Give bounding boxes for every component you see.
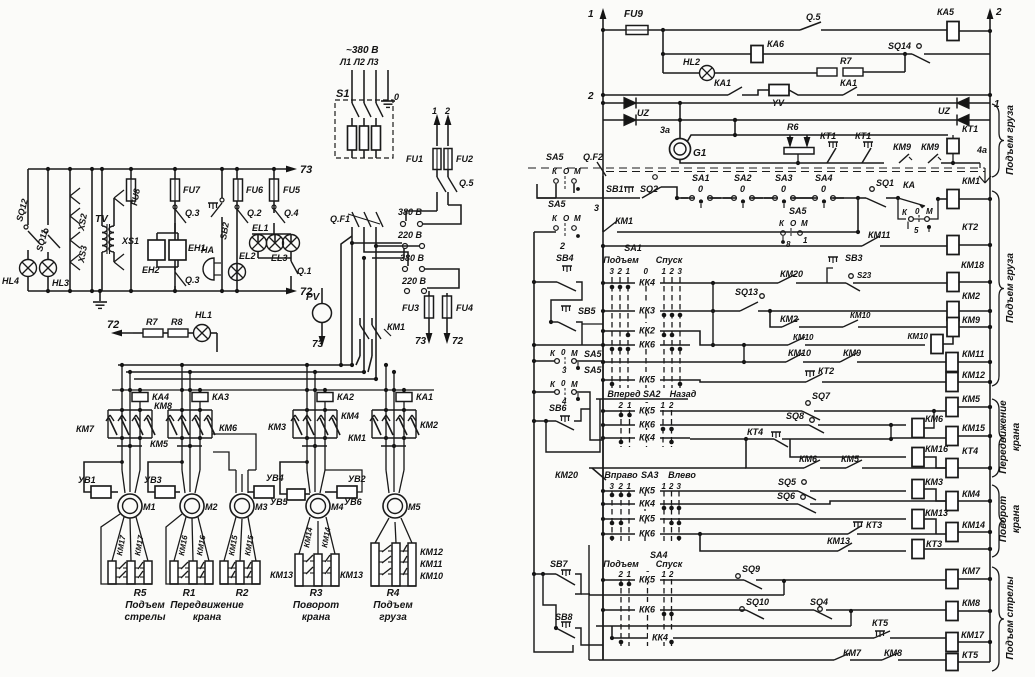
svg-text:SB8: SB8 <box>555 612 573 622</box>
svg-text:М: М <box>801 219 808 228</box>
svg-text:G1: G1 <box>693 148 707 159</box>
svg-text:КМ15: КМ15 <box>962 423 986 433</box>
svg-text:КК5: КК5 <box>639 375 656 385</box>
svg-text:О: О <box>790 219 797 228</box>
svg-text:SB4: SB4 <box>556 253 574 263</box>
svg-text:КК2: КК2 <box>639 326 655 336</box>
svg-text:Спуск: Спуск <box>656 255 683 265</box>
svg-text:Вправо: Вправо <box>604 470 638 480</box>
svg-text:3а: 3а <box>660 125 670 135</box>
svg-text:КМ9: КМ9 <box>962 315 980 325</box>
svg-text:КК5: КК5 <box>639 514 656 524</box>
svg-text:SA2: SA2 <box>734 173 752 183</box>
svg-text:1: 1 <box>588 9 594 20</box>
svg-text:КК5: КК5 <box>639 406 656 416</box>
svg-text:М: М <box>574 167 581 176</box>
svg-text:1: 1 <box>662 482 667 491</box>
svg-text:УВ3: УВ3 <box>144 475 162 485</box>
svg-text:Подъем: Подъем <box>125 600 165 611</box>
svg-text:КК4: КК4 <box>652 633 668 643</box>
svg-text:SQ13: SQ13 <box>735 287 758 297</box>
svg-text:M1: M1 <box>143 502 156 512</box>
svg-text:XS1: XS1 <box>121 236 139 246</box>
svg-text:Вперед: Вперед <box>607 389 641 399</box>
svg-text:Подъем: Подъем <box>373 600 413 611</box>
svg-text:КМ13: КМ13 <box>340 570 363 580</box>
svg-text:SA1: SA1 <box>624 243 642 253</box>
svg-text:HL3: HL3 <box>52 278 69 288</box>
svg-text:SA5: SA5 <box>546 152 565 162</box>
svg-text:4а: 4а <box>976 145 987 155</box>
svg-text:0: 0 <box>644 267 649 276</box>
svg-text:EL2: EL2 <box>239 251 256 261</box>
svg-text:НА: НА <box>201 245 214 255</box>
svg-text:КМ11: КМ11 <box>420 559 442 569</box>
svg-text:M2: M2 <box>205 502 218 512</box>
svg-text:КА: КА <box>903 180 915 190</box>
svg-text:R4: R4 <box>387 588 400 599</box>
svg-text:КМ7: КМ7 <box>76 424 95 434</box>
svg-text:КМ4: КМ4 <box>341 411 359 421</box>
svg-text:SQ10: SQ10 <box>746 597 769 607</box>
svg-text:SA3: SA3 <box>641 470 659 480</box>
svg-text:Подъем: Подъем <box>603 255 639 265</box>
svg-text:M5: M5 <box>408 502 421 512</box>
svg-text:2: 2 <box>668 570 674 579</box>
svg-text:УВ6: УВ6 <box>344 497 363 507</box>
svg-text:КМ17: КМ17 <box>961 630 985 640</box>
svg-text:КА1: КА1 <box>840 78 857 88</box>
svg-text:Подъем груза: Подъем груза <box>1005 105 1016 175</box>
svg-text:Передвижение: Передвижение <box>170 600 244 611</box>
svg-text:2: 2 <box>559 241 565 251</box>
svg-text:SA3: SA3 <box>775 173 793 183</box>
svg-text:SA5: SA5 <box>584 365 603 375</box>
svg-text:1: 1 <box>662 267 667 276</box>
svg-text:SB1: SB1 <box>606 184 624 194</box>
svg-text:КМ11: КМ11 <box>962 349 984 359</box>
svg-text:крана: крана <box>1011 422 1022 451</box>
svg-text:КМ3: КМ3 <box>925 477 943 487</box>
svg-text:Q.F2: Q.F2 <box>583 152 603 162</box>
svg-text:КМ16: КМ16 <box>925 444 949 454</box>
svg-text:FU4: FU4 <box>456 303 473 313</box>
svg-text:R7: R7 <box>146 317 158 327</box>
svg-text:2: 2 <box>587 91 594 102</box>
svg-text:0: 0 <box>698 184 703 194</box>
svg-text:Подъем стрелы: Подъем стрелы <box>1005 576 1016 660</box>
svg-text:КМ11: КМ11 <box>868 230 890 240</box>
svg-text:крана: крана <box>302 612 331 623</box>
svg-text:1: 1 <box>627 482 632 491</box>
svg-text:КК6: КК6 <box>639 420 656 430</box>
svg-text:КК6: КК6 <box>639 340 656 350</box>
svg-text:R3: R3 <box>310 588 323 599</box>
svg-text:SB6: SB6 <box>549 403 568 413</box>
svg-text:SA5: SA5 <box>548 199 567 209</box>
svg-text:1: 1 <box>662 570 667 579</box>
svg-text:КА5: КА5 <box>937 7 955 17</box>
svg-text:FU6: FU6 <box>246 185 264 195</box>
svg-text:PV: PV <box>306 292 321 303</box>
svg-text:R8: R8 <box>171 317 183 327</box>
svg-text:2: 2 <box>669 267 675 276</box>
svg-text:FU5: FU5 <box>283 185 301 195</box>
svg-text:КА1: КА1 <box>416 392 433 402</box>
svg-text:УВ4: УВ4 <box>266 473 284 483</box>
svg-text:1: 1 <box>627 401 632 410</box>
svg-text:2: 2 <box>444 106 450 116</box>
svg-text:EL1: EL1 <box>252 223 269 233</box>
svg-text:R1: R1 <box>183 588 196 599</box>
svg-text:КМ8: КМ8 <box>884 648 902 658</box>
svg-text:КМ1: КМ1 <box>387 322 405 332</box>
svg-text:1: 1 <box>626 267 631 276</box>
svg-text:SQ6: SQ6 <box>777 491 796 501</box>
svg-text:КМ12: КМ12 <box>962 370 985 380</box>
svg-text:КТ5: КТ5 <box>962 650 979 660</box>
svg-text:Q.F1: Q.F1 <box>330 214 350 224</box>
svg-text:КК6: КК6 <box>639 605 656 615</box>
svg-text:КК4: КК4 <box>639 433 655 443</box>
svg-text:73: 73 <box>300 164 312 176</box>
svg-text:КМ20: КМ20 <box>780 269 803 279</box>
svg-text:FU3: FU3 <box>402 303 419 313</box>
svg-text:SQ9: SQ9 <box>742 564 760 574</box>
svg-text:HL4: HL4 <box>2 276 19 286</box>
svg-text:КМ13: КМ13 <box>925 508 948 518</box>
svg-text:КМ13: КМ13 <box>827 536 850 546</box>
svg-text:КМ10: КМ10 <box>908 332 929 341</box>
svg-text:SA5: SA5 <box>584 349 603 359</box>
svg-text:КМ8: КМ8 <box>962 598 980 608</box>
svg-text:КТ3: КТ3 <box>926 539 942 549</box>
svg-text:2: 2 <box>617 267 623 276</box>
svg-text:О: О <box>563 214 570 223</box>
svg-text:КМ20: КМ20 <box>555 470 578 480</box>
svg-text:УВ2: УВ2 <box>348 474 366 484</box>
svg-text:Q.5: Q.5 <box>459 178 475 188</box>
svg-text:Q.2: Q.2 <box>247 208 262 218</box>
svg-text:3: 3 <box>610 267 615 276</box>
svg-text:КК5: КК5 <box>639 575 656 585</box>
svg-text:Назад: Назад <box>670 389 697 399</box>
svg-text:КМ5: КМ5 <box>962 394 981 404</box>
svg-text:КМ18: КМ18 <box>961 260 984 270</box>
svg-text:SQ1: SQ1 <box>876 178 894 188</box>
svg-text:КМ2: КМ2 <box>420 420 438 430</box>
svg-text:КТ5: КТ5 <box>872 618 889 628</box>
svg-text:КК3: КК3 <box>639 306 655 316</box>
svg-text:1: 1 <box>432 106 437 116</box>
svg-text:Q.3: Q.3 <box>185 275 200 285</box>
svg-text:0: 0 <box>915 207 920 216</box>
svg-text:КК4: КК4 <box>639 499 655 509</box>
svg-text:Q.4: Q.4 <box>284 208 299 218</box>
svg-text:КК6: КК6 <box>639 529 656 539</box>
svg-text:HL1: HL1 <box>195 310 212 320</box>
svg-text:Передвижение: Передвижение <box>998 400 1009 474</box>
svg-text:SQ14: SQ14 <box>888 41 911 51</box>
svg-text:крана: крана <box>1011 504 1022 533</box>
svg-text:Спуск: Спуск <box>656 559 683 569</box>
svg-text:Q.5: Q.5 <box>806 12 822 22</box>
svg-text:0: 0 <box>781 184 786 194</box>
svg-text:КМ2: КМ2 <box>780 314 798 324</box>
svg-text:R6: R6 <box>787 122 799 132</box>
svg-text:FU2: FU2 <box>456 154 473 164</box>
svg-text:2: 2 <box>618 570 624 579</box>
svg-text:КМ4: КМ4 <box>962 489 980 499</box>
svg-text:0: 0 <box>740 184 745 194</box>
svg-text:КМ7: КМ7 <box>843 648 862 658</box>
svg-text:КК5: КК5 <box>639 486 656 496</box>
svg-text:КТ1: КТ1 <box>820 131 836 141</box>
svg-text:КМ9: КМ9 <box>843 348 861 358</box>
svg-text:КМ1: КМ1 <box>615 216 633 226</box>
svg-text:КТ4: КТ4 <box>747 427 763 437</box>
svg-text:R5: R5 <box>134 588 147 599</box>
svg-text:КА2: КА2 <box>337 392 354 402</box>
svg-text:S1: S1 <box>336 88 349 100</box>
svg-text:R7: R7 <box>840 56 852 66</box>
svg-text:КМ5: КМ5 <box>150 439 169 449</box>
svg-text:Подъем груза: Подъем груза <box>1005 253 1016 323</box>
svg-text:3: 3 <box>678 267 683 276</box>
svg-text:КК4: КК4 <box>639 278 655 288</box>
svg-text:КМ1: КМ1 <box>962 176 980 186</box>
svg-text:КА3: КА3 <box>212 392 229 402</box>
svg-text:УВ1: УВ1 <box>78 475 96 485</box>
svg-text:M4: M4 <box>331 502 344 512</box>
svg-text:КМ3: КМ3 <box>268 422 286 432</box>
svg-text:380 В: 380 В <box>398 207 423 217</box>
svg-text:КМ13: КМ13 <box>270 570 293 580</box>
svg-text:1: 1 <box>803 236 808 245</box>
svg-text:SQ7: SQ7 <box>812 391 831 401</box>
svg-text:КТ2: КТ2 <box>962 222 978 232</box>
svg-text:КМ9: КМ9 <box>893 142 911 152</box>
svg-text:Q.1: Q.1 <box>297 266 312 276</box>
svg-text:0: 0 <box>821 184 826 194</box>
svg-text:КМ7: КМ7 <box>962 566 981 576</box>
svg-text:1: 1 <box>627 570 632 579</box>
svg-text:SQ2: SQ2 <box>640 184 658 194</box>
svg-text:КТ1: КТ1 <box>962 124 978 134</box>
svg-text:М: М <box>571 380 578 389</box>
svg-text:SB3: SB3 <box>845 253 863 263</box>
svg-text:R2: R2 <box>236 588 249 599</box>
svg-text:220 В: 220 В <box>397 230 423 240</box>
svg-text:5: 5 <box>914 226 919 235</box>
svg-text:3: 3 <box>562 366 567 375</box>
svg-text:2: 2 <box>995 7 1002 18</box>
svg-text:КМ12: КМ12 <box>420 547 443 557</box>
svg-text:3: 3 <box>594 203 599 213</box>
svg-text:SA4: SA4 <box>815 173 833 183</box>
svg-text:UZ: UZ <box>938 106 950 116</box>
svg-text:73: 73 <box>312 339 324 350</box>
svg-text:S23: S23 <box>857 271 872 280</box>
svg-text:SQ5: SQ5 <box>778 477 797 487</box>
svg-text:М: М <box>571 349 578 358</box>
svg-text:UZ: UZ <box>637 108 649 118</box>
svg-text:73: 73 <box>415 336 427 347</box>
svg-text:FU7: FU7 <box>183 185 201 195</box>
svg-text:КТ1: КТ1 <box>855 131 871 141</box>
svg-text:крана: крана <box>193 612 222 623</box>
svg-text:О: О <box>563 167 570 176</box>
svg-text:УВ5: УВ5 <box>270 497 289 507</box>
svg-text:Поворот: Поворот <box>293 600 339 611</box>
svg-text:КМ10: КМ10 <box>420 571 443 581</box>
svg-text:М: М <box>574 214 581 223</box>
svg-text:Поворот: Поворот <box>998 496 1009 542</box>
svg-text:220 В: 220 В <box>401 276 427 286</box>
svg-text:3: 3 <box>610 482 615 491</box>
svg-text:2: 2 <box>668 482 674 491</box>
svg-text:КМ2: КМ2 <box>962 291 980 301</box>
svg-text:3: 3 <box>677 482 682 491</box>
svg-text:SA1: SA1 <box>692 173 710 183</box>
svg-text:КТ4: КТ4 <box>962 446 978 456</box>
svg-text:2: 2 <box>668 401 674 410</box>
svg-text:M3: M3 <box>255 502 268 512</box>
svg-text:Влево: Влево <box>668 470 696 480</box>
svg-text:72: 72 <box>107 319 119 331</box>
svg-text:SB7: SB7 <box>550 559 569 569</box>
svg-text:КА1: КА1 <box>714 78 731 88</box>
svg-text:FU1: FU1 <box>406 154 423 164</box>
svg-text:8: 8 <box>786 240 791 249</box>
svg-text:2: 2 <box>618 482 624 491</box>
svg-text:SB5: SB5 <box>578 306 597 316</box>
svg-text:стрелы: стрелы <box>124 612 165 623</box>
svg-text:1: 1 <box>994 99 1000 110</box>
svg-text:SQ4: SQ4 <box>810 597 828 607</box>
svg-text:Q.3: Q.3 <box>185 208 200 218</box>
svg-text:КМ6: КМ6 <box>219 423 238 433</box>
svg-text:HL2: HL2 <box>683 57 700 67</box>
svg-text:~380 В: ~380 В <box>346 45 379 56</box>
svg-text:КМ14: КМ14 <box>962 520 985 530</box>
svg-text:2: 2 <box>618 401 624 410</box>
svg-text:КМ10: КМ10 <box>850 311 871 320</box>
svg-text:КМ1: КМ1 <box>348 433 366 443</box>
svg-text:КТ3: КТ3 <box>866 520 882 530</box>
svg-text:0: 0 <box>561 379 566 388</box>
svg-text:КМ9: КМ9 <box>921 142 939 152</box>
svg-text:Подъем: Подъем <box>603 559 639 569</box>
svg-text:Л1 Л2 Л3: Л1 Л2 Л3 <box>339 57 379 67</box>
svg-text:SA2: SA2 <box>643 389 661 399</box>
svg-text:КМ10: КМ10 <box>788 348 811 358</box>
svg-text:SA5: SA5 <box>789 206 808 216</box>
svg-text:72: 72 <box>452 336 464 347</box>
svg-text:0: 0 <box>561 348 566 357</box>
svg-text:М: М <box>926 207 933 216</box>
svg-text:FU9: FU9 <box>624 9 643 20</box>
svg-text:КА6: КА6 <box>767 39 785 49</box>
svg-text:груза: груза <box>379 612 407 623</box>
svg-text:1: 1 <box>661 401 666 410</box>
svg-text:SQ8: SQ8 <box>786 411 804 421</box>
